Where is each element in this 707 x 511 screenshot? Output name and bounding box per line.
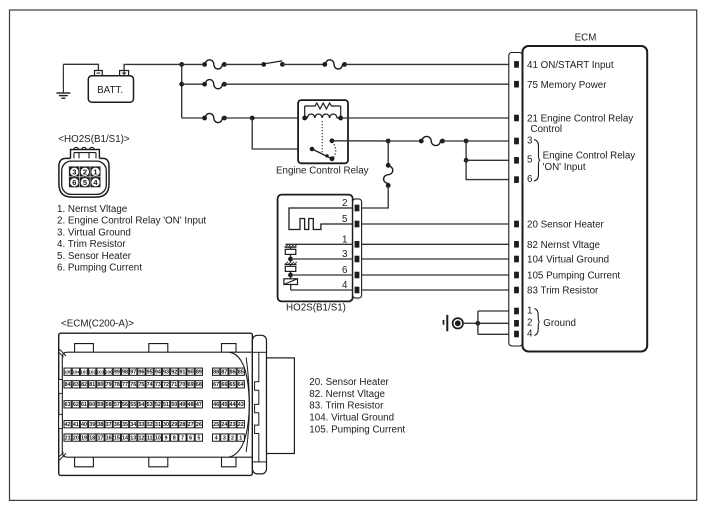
svg-text:4: 4 (527, 328, 533, 339)
svg-text:91: 91 (179, 369, 185, 375)
svg-text:6: 6 (527, 174, 533, 185)
fuse F6 (422, 136, 443, 145)
wire junction down to fuse (387, 141, 389, 165)
wire vertical feed (181, 64, 183, 118)
svg-text:32: 32 (147, 422, 153, 428)
svg-text:30: 30 (163, 422, 169, 428)
svg-text:50: 50 (171, 402, 177, 408)
wire to ECM pin 5 (466, 159, 514, 161)
svg-text:31: 31 (155, 422, 161, 428)
svg-text:34: 34 (130, 422, 136, 428)
wire fuse to HO2S pin 2 (362, 186, 389, 209)
svg-text:10: 10 (155, 435, 161, 441)
svg-text:61: 61 (81, 402, 87, 408)
svg-text:22: 22 (238, 422, 244, 428)
svg-text:26: 26 (196, 422, 202, 428)
ECM pin function list (309, 377, 405, 436)
svg-text:42: 42 (65, 422, 71, 428)
label Engine Control Relay ON Input (543, 151, 636, 173)
svg-text:Engine Control Relay: Engine Control Relay (276, 165, 369, 176)
svg-text:92: 92 (171, 369, 177, 375)
wire to ECM pin 2 (478, 322, 515, 324)
svg-text:104 Virtual Ground: 104 Virtual Ground (527, 255, 609, 266)
svg-text:HO2S(B1/S1): HO2S(B1/S1) (286, 303, 346, 314)
svg-text:60: 60 (89, 402, 95, 408)
svg-text:68: 68 (196, 382, 202, 388)
svg-text:3: 3 (527, 135, 533, 146)
HO2S connector pin grid (69, 166, 101, 187)
svg-text:43: 43 (238, 402, 244, 408)
svg-text:4: 4 (342, 280, 348, 291)
svg-text:24: 24 (221, 422, 227, 428)
svg-text:37: 37 (106, 422, 112, 428)
svg-text:14: 14 (122, 435, 128, 441)
wire to ECM pin 4 (478, 333, 515, 335)
wire to pin 3 (291, 258, 353, 260)
HO2S connector housing (59, 147, 109, 197)
svg-text:82: 82 (81, 382, 87, 388)
svg-text:85: 85 (238, 369, 244, 375)
HO2S pin function list (57, 204, 206, 274)
C200-A pin row 84-68 / 67-64 (64, 381, 244, 388)
svg-text:5. Sensor Heater: 5. Sensor Heater (57, 251, 132, 262)
node battery feed junction row1 (179, 62, 184, 67)
svg-text:18: 18 (89, 435, 95, 441)
svg-text:66: 66 (221, 382, 227, 388)
svg-text:56: 56 (122, 402, 128, 408)
HO2S pin 2 (342, 198, 359, 211)
svg-text:53: 53 (147, 402, 153, 408)
node ECM pin3 branch junction (464, 139, 469, 144)
brace ground pins 1,2,4 (534, 309, 539, 336)
svg-text:95: 95 (147, 369, 153, 375)
svg-text:11: 11 (147, 435, 153, 441)
svg-text:6: 6 (72, 178, 76, 187)
svg-text:63: 63 (65, 402, 71, 408)
HO2S pin 1 (342, 234, 359, 247)
ECM box (523, 46, 648, 352)
svg-text:3: 3 (342, 249, 348, 260)
svg-text:83. Trim Resistor: 83. Trim Resistor (309, 401, 384, 412)
HO2S pin 6 (342, 265, 359, 278)
svg-text:4. Trim Resistor: 4. Trim Resistor (57, 239, 126, 250)
svg-text:7: 7 (181, 435, 184, 441)
svg-text:Control: Control (531, 124, 563, 135)
svg-text:75: 75 (138, 382, 144, 388)
wire relay coil to ECM pin 21 (341, 117, 515, 119)
svg-text:58: 58 (106, 402, 112, 408)
ECM pin 20 (514, 220, 604, 231)
wire to ECM pin 41 (345, 63, 515, 65)
brace relay ON input pins 3,5,6 (534, 140, 540, 182)
svg-text:83: 83 (73, 382, 79, 388)
svg-text:13: 13 (130, 435, 136, 441)
svg-text:52: 52 (155, 402, 161, 408)
trim resistor (pin 4) (284, 275, 298, 290)
C200-A pin row 105-89 / 88-85 (64, 368, 245, 375)
fuse F3 (row2) (205, 80, 224, 89)
relay resistor (305, 103, 341, 118)
svg-text:2. Engine Control Relay 'ON' I: 2. Engine Control Relay 'ON' Input (57, 216, 206, 227)
svg-text:17: 17 (97, 435, 103, 441)
wire HO2S pin3 to ECM pin104 (362, 258, 515, 260)
svg-text:67: 67 (213, 382, 219, 388)
ECM pin 4 (514, 328, 533, 339)
HO2S pin 5 (342, 214, 359, 227)
svg-text:102: 102 (88, 369, 96, 374)
wire relay output to junction (332, 140, 388, 142)
nernst cell electrode (pin 1) (285, 244, 353, 249)
svg-text:6: 6 (342, 265, 348, 276)
svg-text:41 ON/START Input: 41 ON/START Input (527, 60, 614, 71)
svg-text:2: 2 (342, 198, 347, 209)
ECM pin 3 (514, 135, 533, 146)
node relay feed junction (250, 116, 255, 121)
svg-text:54: 54 (138, 402, 144, 408)
wire battery positive to junction (124, 64, 182, 70)
node virtual ground junction (pin 3) (288, 257, 293, 262)
svg-text:65: 65 (230, 382, 236, 388)
svg-text:40: 40 (81, 422, 87, 428)
wire switch to fuse F2 (282, 63, 324, 65)
svg-text:105 Pumping Current: 105 Pumping Current (527, 271, 620, 282)
svg-text:94: 94 (155, 369, 161, 375)
ECM pin 2 (514, 318, 532, 329)
wire row1 to fuse (182, 63, 205, 65)
C200-A lever housing (267, 358, 295, 454)
svg-text:BATT.: BATT. (97, 85, 123, 96)
svg-text:3: 3 (223, 435, 226, 441)
svg-text:<HO2S(B1/S1)>: <HO2S(B1/S1)> (58, 134, 130, 145)
svg-text:82. Nernst Vltage: 82. Nernst Vltage (309, 389, 385, 400)
svg-text:104: 104 (72, 369, 80, 374)
ECM pin 105 (514, 271, 620, 282)
battery BATT. (88, 71, 133, 103)
svg-text:77: 77 (122, 382, 128, 388)
svg-text:1: 1 (527, 305, 532, 316)
svg-text:59: 59 (97, 402, 103, 408)
wire branch down (465, 141, 467, 160)
wire HO2S pin4 to ECM pin83 (362, 289, 515, 291)
svg-text:48: 48 (188, 402, 194, 408)
ignition switch (261, 61, 284, 67)
HO2S pin 4 (342, 280, 359, 293)
relay switch (310, 138, 336, 161)
C200-A pin row 21-5 / 4-1 (64, 434, 244, 441)
wire branch down to pin6 row (466, 160, 514, 179)
svg-text:98: 98 (122, 369, 128, 375)
svg-text:87: 87 (221, 369, 227, 375)
svg-text:6. Pumping Current: 6. Pumping Current (57, 263, 142, 274)
wire to pin 6 (291, 274, 353, 276)
svg-text:97: 97 (130, 369, 136, 375)
nernst cell (pin1-pin3) (285, 249, 296, 254)
wire ground to junction (463, 322, 478, 324)
svg-text:2: 2 (83, 167, 87, 176)
svg-text:80: 80 (97, 382, 103, 388)
relay armature dashed link (321, 121, 323, 153)
svg-text:5: 5 (83, 178, 87, 187)
svg-text:82 Nernst Vltage: 82 Nernst Vltage (527, 240, 601, 251)
wire fuse to relay coil (224, 117, 304, 119)
svg-text:1. Nernst Vltage: 1. Nernst Vltage (57, 204, 128, 215)
heater element (pins 2-5) (289, 208, 353, 230)
wire HO2S pin5 to ECM pin20 (362, 223, 515, 225)
svg-text:25: 25 (213, 422, 219, 428)
C200-A housing outline (59, 333, 253, 475)
svg-text:69: 69 (188, 382, 194, 388)
svg-text:105. Pumping Current: 105. Pumping Current (309, 425, 405, 436)
node pumping current junction (pin 6) (288, 273, 293, 278)
svg-text:27: 27 (188, 422, 194, 428)
svg-text:5: 5 (197, 435, 200, 441)
ECM pin 82 (514, 240, 600, 251)
svg-text:62: 62 (73, 402, 79, 408)
svg-text:8: 8 (173, 435, 176, 441)
svg-text:28: 28 (179, 422, 185, 428)
svg-text:49: 49 (179, 402, 185, 408)
svg-text:88: 88 (213, 369, 219, 375)
engine control relay box (298, 100, 348, 163)
svg-text:2: 2 (527, 318, 532, 329)
C200-A pin row 42-26 / 25-22 (64, 421, 244, 428)
svg-text:44: 44 (230, 402, 236, 408)
wire to ECM pin 75 (224, 83, 514, 85)
svg-text:12: 12 (138, 435, 144, 441)
svg-text:86: 86 (230, 369, 236, 375)
svg-text:74: 74 (147, 382, 153, 388)
svg-text:103: 103 (80, 369, 88, 374)
svg-text:Engine Control Relay: Engine Control Relay (543, 151, 636, 162)
HO2S pin strip (353, 199, 362, 298)
svg-text:96: 96 (138, 369, 144, 375)
svg-text:38: 38 (97, 422, 103, 428)
svg-text:99: 99 (114, 369, 120, 375)
ECM pin 5 (514, 155, 533, 166)
svg-text:16: 16 (106, 435, 112, 441)
wire ground branch vertical (477, 311, 479, 334)
svg-text:93: 93 (163, 369, 169, 375)
wire battery negative to ground (63, 64, 98, 70)
svg-text:46: 46 (213, 402, 219, 408)
svg-text:20. Sensor Heater: 20. Sensor Heater (309, 377, 389, 388)
svg-text:5: 5 (342, 214, 348, 225)
HO2S(B1/S1) component box (278, 195, 353, 302)
wire HO2S pin6 to ECM pin105 (362, 274, 515, 276)
wire HO2S pin1 to ECM pin82 (362, 243, 515, 245)
svg-text:4: 4 (215, 435, 218, 441)
fuse F5 (sensor feed) (384, 166, 393, 186)
svg-text:'ON' Input: 'ON' Input (543, 162, 586, 173)
wire row2 to fuse (182, 83, 205, 85)
svg-text:78: 78 (114, 382, 120, 388)
svg-text:76: 76 (130, 382, 136, 388)
wire fuse to junction (443, 140, 467, 142)
svg-text:2: 2 (231, 435, 234, 441)
svg-text:81: 81 (89, 382, 95, 388)
node ground junction (476, 321, 481, 326)
fuse F1 (row1) (205, 60, 224, 69)
ECM pin 83 (514, 286, 599, 297)
svg-text:84: 84 (65, 382, 71, 388)
pumping cell electrode (285, 259, 297, 266)
relay coil (302, 114, 343, 120)
ECM pin 104 (514, 255, 609, 266)
svg-text:21: 21 (65, 435, 71, 441)
node junction row2 (179, 82, 184, 87)
chassis ground symbol (444, 315, 463, 331)
svg-text:75 Memory Power: 75 Memory Power (527, 80, 607, 91)
svg-text:57: 57 (114, 402, 120, 408)
fuse F2 (row1) (326, 60, 345, 69)
svg-text:1: 1 (93, 167, 97, 176)
node ECM pin5 branch junction (464, 158, 469, 163)
wire junction to fuse F6 (388, 140, 421, 142)
svg-text:79: 79 (106, 382, 112, 388)
svg-text:90: 90 (188, 369, 194, 375)
svg-text:73: 73 (155, 382, 161, 388)
ground (battery negative) (56, 64, 70, 98)
svg-text:47: 47 (196, 402, 202, 408)
node relay output junction (386, 139, 391, 144)
C200-A pin row 63-47 / 46-43 (64, 401, 244, 408)
svg-text:72: 72 (163, 382, 169, 388)
ECM pin strip (509, 53, 523, 347)
svg-text:29: 29 (171, 422, 177, 428)
svg-text:105: 105 (64, 369, 72, 374)
svg-text:51: 51 (163, 402, 169, 408)
svg-text:ECM: ECM (575, 33, 597, 44)
svg-text:36: 36 (114, 422, 120, 428)
svg-text:89: 89 (196, 369, 202, 375)
svg-text:20 Sensor Heater: 20 Sensor Heater (527, 220, 605, 231)
svg-text:35: 35 (122, 422, 128, 428)
wire row3 to fuse (182, 117, 205, 119)
svg-text:101: 101 (97, 369, 105, 374)
svg-text:20: 20 (73, 435, 79, 441)
svg-text:55: 55 (130, 402, 136, 408)
wire fuse to ignition switch (224, 63, 263, 65)
svg-text:45: 45 (221, 402, 227, 408)
svg-text:100: 100 (105, 369, 113, 374)
svg-text:104. Virtual Ground: 104. Virtual Ground (309, 413, 394, 424)
HO2S pin 3 (342, 249, 359, 262)
svg-text:<ECM(C200-A)>: <ECM(C200-A)> (61, 318, 134, 329)
wire to pin 4 (291, 289, 353, 291)
ECM pin 21 (514, 114, 633, 125)
wire junction down to relay switch common (252, 118, 312, 149)
svg-text:71: 71 (171, 382, 177, 388)
svg-text:1: 1 (239, 435, 242, 441)
svg-text:3. Virtual Ground: 3. Virtual Ground (57, 227, 131, 238)
svg-text:19: 19 (81, 435, 87, 441)
C200-A right latch strip (246, 335, 266, 474)
svg-text:70: 70 (179, 382, 185, 388)
svg-text:9: 9 (165, 435, 168, 441)
svg-text:5: 5 (527, 155, 533, 166)
svg-text:33: 33 (138, 422, 144, 428)
wire to ECM pin 1 (478, 310, 515, 312)
fuse F4 (row3) (205, 113, 224, 122)
svg-text:64: 64 (238, 382, 244, 388)
svg-text:6: 6 (189, 435, 192, 441)
svg-text:Ground: Ground (543, 318, 576, 329)
svg-text:83 Trim Resistor: 83 Trim Resistor (527, 286, 599, 297)
svg-text:15: 15 (114, 435, 120, 441)
wire to ECM pin 3 (466, 140, 514, 142)
ECM pin 41 (514, 60, 614, 71)
svg-text:3: 3 (72, 167, 76, 176)
svg-text:41: 41 (73, 422, 79, 428)
svg-text:23: 23 (230, 422, 236, 428)
ECM pin 1 (514, 305, 532, 316)
svg-text:39: 39 (89, 422, 95, 428)
svg-text:1: 1 (342, 234, 347, 245)
pumping cell (pin3-pin6) (285, 266, 296, 271)
ECM pin 6 (514, 174, 533, 185)
ECM pin 75 (514, 80, 607, 91)
